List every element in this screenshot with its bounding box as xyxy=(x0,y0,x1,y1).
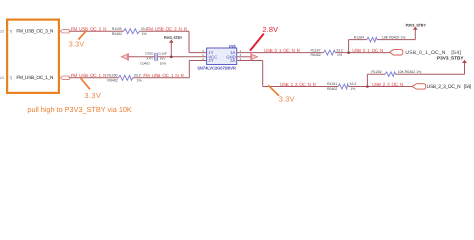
annotation 3.3V row1 slash xyxy=(78,30,86,39)
capacitor C820 labels xyxy=(140,51,167,65)
svg-text:R1191: R1191 xyxy=(327,82,337,86)
svg-text:23: 23 xyxy=(0,30,4,34)
IC U95 part number xyxy=(197,65,236,70)
svg-text:1%: 1% xyxy=(142,32,147,36)
svg-text:USB_0_1_OC_N_R: USB_0_1_OC_N_R xyxy=(264,48,301,53)
power symbol P3V3_STBY (bottom right) xyxy=(437,56,467,64)
resistor R1282 refdes xyxy=(371,70,381,74)
resistor R1191 value xyxy=(350,82,357,91)
svg-text:P3V3_STBY: P3V3_STBY xyxy=(164,36,183,40)
svg-text:33.2: 33.2 xyxy=(336,48,343,52)
net label USB_2_3_OC_N_R xyxy=(280,82,317,87)
svg-text:7]: 7] xyxy=(9,76,12,80)
net label FM_USB_OC_3_N xyxy=(71,27,107,32)
resistor R1191 labels xyxy=(327,82,337,91)
connector module box (orange) xyxy=(7,20,59,93)
svg-text:33.2: 33.2 xyxy=(134,73,141,77)
net label FM_USB_OC_1_N_R xyxy=(143,73,184,78)
svg-text:R1190: R1190 xyxy=(107,73,117,77)
resistor R1191 zigzag xyxy=(338,84,349,89)
svg-text:R0402: R0402 xyxy=(327,87,337,91)
resistor R1187 value xyxy=(336,48,343,57)
junction dot VCC node xyxy=(170,56,173,59)
svg-text:[54]: [54] xyxy=(464,84,472,90)
annotation 2.8V slash xyxy=(250,34,264,51)
resistor R1155 zigzag xyxy=(124,29,141,34)
svg-text:R1187: R1187 xyxy=(311,48,321,52)
annotation 2.8V text xyxy=(262,25,278,34)
net label FM_USB_OC_1_N xyxy=(71,73,107,78)
ground stub + arrow right of U95 xyxy=(237,53,258,61)
pin FM_USB_OC_3_N sheet refs xyxy=(0,30,12,34)
off-page net name USB_2_3_OC_N [54] xyxy=(427,84,472,90)
resistor R1190 labels xyxy=(107,73,117,82)
svg-text:C0402: C0402 xyxy=(140,62,150,66)
svg-text:R1155: R1155 xyxy=(112,27,122,31)
power symbol P3V3_STBY (top right) xyxy=(406,23,427,30)
hierarchical pin tag 1 xyxy=(60,30,69,33)
svg-text:USB_2_3_OC_N_R: USB_2_3_OC_N_R xyxy=(280,82,317,87)
pullup R1284 branch wires xyxy=(349,29,416,52)
pin name FM_USB_OC_1_N xyxy=(16,75,53,80)
svg-text:R0402: R0402 xyxy=(311,53,321,57)
svg-text:3.3V: 3.3V xyxy=(69,40,85,49)
svg-text:P3V3_STBY: P3V3_STBY xyxy=(406,23,427,27)
svg-text:2Y: 2Y xyxy=(208,58,213,63)
pin FM_USB_OC_1_N sheet refs xyxy=(0,76,12,80)
power symbol P3V3_STBY (mid, to VCC) xyxy=(164,36,183,57)
svg-text:FM_USB_OC_3_N: FM_USB_OC_3_N xyxy=(16,29,53,34)
pin name FM_USB_OC_3_N xyxy=(16,29,53,34)
net label USB_0_1_OC_N_R xyxy=(264,48,301,53)
IC U95 pin names xyxy=(208,50,235,63)
wire cap to vcc node xyxy=(129,56,207,58)
junction dot bottom pullup xyxy=(366,85,369,88)
svg-text:10%: 10% xyxy=(160,62,167,66)
resistor R1282 value xyxy=(398,70,422,74)
IC U95 pin numbers xyxy=(202,49,241,61)
annotation 3.3V bottom slash xyxy=(268,85,279,96)
svg-text:R1282: R1282 xyxy=(371,70,381,74)
resistor R1284 refdes xyxy=(354,35,364,39)
wire row2 (FM_USB_OC_1_N) xyxy=(69,61,206,78)
svg-text:FM_USB_OC_3_N_R: FM_USB_OC_3_N_R xyxy=(147,27,188,32)
svg-text:3.3V: 3.3V xyxy=(279,94,295,103)
svg-text:R0402: R0402 xyxy=(112,32,122,36)
svg-text:1%: 1% xyxy=(337,53,342,57)
capacitor C820 plates xyxy=(155,53,157,61)
svg-text:USB_0_1_OC_N: USB_0_1_OC_N xyxy=(352,48,383,53)
resistor R1187 zigzag xyxy=(324,50,336,55)
svg-text:pull high to P3V3_STBY via 10K: pull high to P3V3_STBY via 10K xyxy=(27,105,131,114)
svg-text:R1284: R1284 xyxy=(354,35,364,39)
annotation 3.3V row2 slash xyxy=(81,78,91,89)
svg-text:1%: 1% xyxy=(137,78,142,82)
svg-text:7]: 7] xyxy=(9,30,12,34)
svg-text:16V: 16V xyxy=(160,57,167,61)
ground arrow left (cap C820 return) xyxy=(121,53,128,61)
resistor R1284 zigzag xyxy=(367,37,377,42)
op-amp/buffer U95 body xyxy=(207,48,237,65)
wire 2A output down to bottom row xyxy=(237,61,412,87)
svg-text:FM_USB_OC_1_N: FM_USB_OC_1_N xyxy=(16,75,53,80)
annotation 3.3V bottom text xyxy=(279,94,295,103)
svg-text:R0402: R0402 xyxy=(107,78,117,82)
resistor R1284 value xyxy=(382,35,406,39)
svg-text:SN74LVC2G07DBVR: SN74LVC2G07DBVR xyxy=(197,65,236,70)
svg-text:FM_USB_OC_3_N: FM_USB_OC_3_N xyxy=(71,27,107,32)
svg-text:X7R: X7R xyxy=(146,57,153,61)
annotation 3.3V row1 text xyxy=(69,40,85,49)
resistor R1155 value xyxy=(141,27,148,36)
svg-text:1%: 1% xyxy=(350,87,355,91)
resistor R1187 labels xyxy=(311,48,321,57)
resistor R1190 zigzag xyxy=(119,75,133,80)
svg-text:P3V3_STBY: P3V3_STBY xyxy=(437,56,464,61)
svg-text:USB_2_3_OC_N: USB_2_3_OC_N xyxy=(427,84,461,90)
off-page connector USB_2_3_OC_N xyxy=(412,84,426,89)
net label FM_USB_OC_3_N_R xyxy=(147,27,188,32)
svg-text:USB_2_3_OC_N: USB_2_3_OC_N xyxy=(372,82,403,87)
svg-text:FM_USB_OC_1_N_R: FM_USB_OC_1_N_R xyxy=(143,73,184,78)
svg-text:2.8V: 2.8V xyxy=(262,25,278,34)
svg-text:3.3V: 3.3V xyxy=(84,91,100,100)
svg-text:FM_USB_OC_1_N: FM_USB_OC_1_N xyxy=(71,73,107,78)
annotation 3.3V row2 text xyxy=(84,91,100,100)
pullup R1282 branch wires xyxy=(367,62,464,86)
svg-text:C820: C820 xyxy=(145,51,153,55)
off-page net name USB_0_1_OC_N [54] xyxy=(405,50,461,56)
resistor R1282 zigzag xyxy=(385,72,396,77)
junction dot top pullup xyxy=(347,51,350,54)
hierarchical pin tag 2 xyxy=(60,76,69,79)
resistor R1155 labels xyxy=(112,27,122,36)
svg-text:23: 23 xyxy=(0,76,4,80)
svg-text:10K R0402 1%: 10K R0402 1% xyxy=(382,35,406,39)
svg-text:0.1uF: 0.1uF xyxy=(159,51,167,55)
svg-text:10K R0402 1%: 10K R0402 1% xyxy=(398,70,422,74)
wire row1 (FM_USB_OC_3_N) xyxy=(69,31,206,52)
net label USB_0_1_OC_N xyxy=(352,48,383,53)
off-page connector USB_0_1_OC_N xyxy=(390,50,403,55)
svg-text:33.2: 33.2 xyxy=(350,82,357,86)
wire 1A output row xyxy=(237,52,390,54)
IC U95 refdes xyxy=(229,44,236,48)
resistor R1190 value xyxy=(134,73,142,82)
annotation pull high note xyxy=(27,105,131,114)
svg-text:2A: 2A xyxy=(230,58,235,63)
net label USB_2_3_OC_N xyxy=(372,82,403,87)
